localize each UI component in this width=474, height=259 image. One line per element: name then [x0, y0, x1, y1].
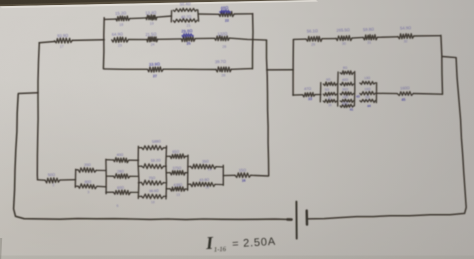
- resistor R39 (36&#937;): [340, 87, 353, 95]
- resistor R22 (48&#937;): [219, 5, 234, 23]
- resistor R8 (59.2&#937;): [142, 158, 164, 168]
- resistor R11 (65&#937;): [170, 150, 185, 159]
- resistor R42 (13&#937;): [360, 76, 376, 85]
- resistor R25 (29.8&#937;): [181, 28, 195, 46]
- wire: R7 lead: [139, 147, 142, 149]
- wire: R17 to parallel block 1: [72, 39, 104, 42]
- wire: R3 lead: [76, 185, 79, 187]
- wire: R29 to R30: [322, 38, 336, 40]
- wire: R32 to right bus: [414, 35, 441, 37]
- wire: cluster mid-left bus: [337, 72, 339, 106]
- resistor R38 (40&#937;): [340, 78, 353, 86]
- wire: R16 to node B vertical: [251, 174, 269, 177]
- wire: R5 lead: [106, 175, 113, 177]
- resistor R27 (33.9&#937;): [148, 61, 164, 78]
- resistor R12 (375&#937;): [170, 166, 185, 175]
- wire: R1 to block A: [60, 179, 76, 181]
- resistor R9 (75&#937;): [142, 176, 164, 185]
- resistor R1 (50&#937;): [45, 172, 59, 187]
- resistor R30 (265.5&#937;): [336, 27, 352, 46]
- wire: R15 to bus: [215, 183, 223, 185]
- resistor R4 (40&#937;): [113, 153, 128, 163]
- battery negative plate (short): [306, 211, 309, 225]
- wire: R27 to R28: [163, 68, 216, 70]
- resistor R37 (8&#937;): [340, 66, 353, 75]
- resistor R5 (28&#937;): [113, 169, 129, 178]
- wire: R14 lead: [188, 166, 191, 168]
- wire: right bus tap toward outer right: [442, 57, 456, 58]
- resistor R13 (438&#937;): [170, 183, 185, 197]
- wire: R23 to R24: [129, 39, 148, 41]
- wire: block-1 bottom branch left segment: [104, 68, 148, 70]
- wire: shared bus blocks C-D: [165, 146, 168, 199]
- wire: R15 lead: [188, 183, 191, 185]
- wire: R11 lead: [166, 155, 170, 157]
- wire: bottom network lead-in: [37, 179, 45, 181]
- wire: R11 to bus: [185, 155, 188, 157]
- wire: sub-box to R22: [199, 13, 219, 15]
- battery positive plate (long): [295, 202, 297, 239]
- wire: R31 to R32: [378, 36, 398, 39]
- resistor R26 (132&#937;): [215, 31, 230, 49]
- wire: right-half left bus: [292, 40, 294, 96]
- resistor R20 (50.4&#937;): [173, 1, 196, 12]
- wire: R25 to R26: [195, 37, 214, 39]
- resistor R34 (9&#937;): [323, 77, 337, 85]
- wire: block-1 right bus: [252, 14, 255, 69]
- wire: R12 to bus: [185, 172, 188, 174]
- wire: R45 to right bus: [413, 93, 442, 96]
- resistor R33 (47&#937;): [303, 86, 316, 101]
- wire: R3 to bus: [97, 185, 106, 188]
- wire: R13 lead: [166, 188, 170, 190]
- resistor R32 (54.9&#937;): [398, 25, 414, 43]
- resistor R19 (13.4&#937;): [145, 10, 157, 26]
- wire: R9 to bus: [163, 182, 166, 184]
- wire: R33 to cluster: [315, 94, 321, 96]
- wire: shared bus blocks B-C: [137, 146, 140, 198]
- wire: R2 to bus: [96, 169, 106, 171]
- wire: R22 to block-1 right bus: [234, 13, 253, 15]
- resistor R43 (10&#937;): [356, 87, 375, 99]
- resistor R36: [323, 99, 337, 107]
- wire: sub-box left bus: [170, 11, 172, 22]
- wire: cluster mid-right bus: [353, 72, 355, 106]
- resistor R17 (93.9&#937;): [55, 33, 73, 49]
- wire: R4 to bus: [129, 159, 139, 161]
- wire: R6 to bus: [130, 191, 138, 193]
- wire: sub-box right bus: [197, 10, 200, 21]
- wire: cluster right bus: [375, 83, 377, 103]
- wire: R6 lead: [106, 191, 114, 193]
- wire: R14 to bus: [216, 166, 224, 168]
- wire: R24 to R25: [158, 38, 181, 40]
- wire: cluster left bus: [319, 83, 322, 102]
- wire: R2 lead: [76, 169, 78, 171]
- resistor R2 (20&#937;): [78, 163, 96, 173]
- wire: middle branch to node B: [229, 38, 266, 40]
- wire: block-E right bus: [222, 165, 224, 185]
- resistor R41 (60&#937;): [340, 101, 353, 111]
- wire: cluster to R45: [376, 92, 397, 94]
- resistor R6 (60&#937;): [113, 186, 130, 208]
- wire: R13 to bus: [185, 188, 188, 190]
- wire: R7 to bus: [164, 147, 167, 149]
- wire: left vertical bus (node A): [37, 43, 39, 179]
- resistor R10 (98.6&#937;): [142, 189, 164, 205]
- wire: block E to R16: [223, 174, 235, 176]
- wire: R28 to block-1 right bus: [231, 68, 252, 71]
- wire: R19 to sub-parallel box: [157, 16, 172, 17]
- resistor R3 (80&#937;): [78, 180, 97, 194]
- resistor R21 (40.7&#937;): [173, 14, 197, 28]
- wire: right-half bottom row lead-in: [293, 94, 303, 96]
- resistor R7 (588&#937;): [142, 139, 164, 150]
- wire: R4 lead: [106, 159, 113, 161]
- wire: block-1 top branch segment: [105, 18, 116, 20]
- resistor R15 (43.8&#937;): [191, 178, 216, 190]
- wire: R8 lead: [138, 165, 141, 167]
- wire: pen stop blob at battery lead: [288, 218, 292, 221]
- wire: right-half right bus: [441, 35, 443, 94]
- wire: block-1 left bus: [102, 18, 105, 69]
- resistor R31 (59.8&#937;): [363, 27, 378, 45]
- wire: R9 lead: [138, 181, 141, 183]
- wire: R5 to bus: [130, 175, 139, 177]
- wire: top-left feed: [39, 42, 55, 43]
- wire: left stub joining outer return to node A: [18, 92, 38, 95]
- resistor R45 (160&#937;): [397, 85, 413, 102]
- wire: R10 lead: [139, 195, 142, 197]
- wire: R10 to bus: [164, 195, 167, 197]
- resistor R14 (35&#937;): [191, 159, 217, 171]
- resistor R28 (39.7&#937;): [215, 59, 232, 78]
- resistor R29 (56.1&#937;): [306, 28, 322, 47]
- label: total current I(1-16) = 2.50A: [204, 229, 276, 254]
- wire: battery negative lead along bottom and up left edge: [14, 94, 292, 219]
- resistor R18 (15.2&#937;): [115, 10, 130, 27]
- wire: crossbar node B to right-half bus: [267, 69, 294, 71]
- wire: R18 to R19: [130, 17, 146, 20]
- resistor R16 (15&#937;): [235, 167, 251, 182]
- wire: right-half top row lead-in: [293, 38, 306, 40]
- resistor R23 (64.9&#937;): [112, 31, 129, 47]
- resistor R35 (5&#937;): [323, 87, 337, 100]
- wire: R8 to bus: [164, 165, 167, 167]
- wire: R30 to R31: [352, 36, 363, 39]
- wire: R12 lead: [166, 172, 170, 174]
- wire: outer right vertical down and along bottom to battery positive: [308, 58, 467, 219]
- wire: shared bus blocks D-E: [187, 155, 189, 190]
- resistor R24 (21.5&#937;): [145, 31, 158, 46]
- resistor R40 (14&#937;): [340, 95, 353, 103]
- wire: shared bus blocks A-B: [105, 159, 107, 193]
- wire: block-A left bus: [74, 169, 76, 187]
- wire: vertical from node B down to bottom network: [267, 40, 269, 176]
- resistor R44 (5&#937;): [360, 95, 376, 108]
